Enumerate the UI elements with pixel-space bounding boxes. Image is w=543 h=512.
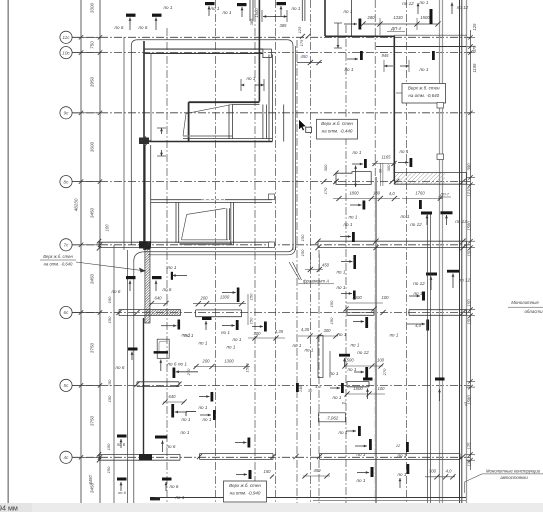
svg-text:по 1: по 1 (330, 371, 339, 376)
4c beam mid (200, 453, 274, 455)
stair2 top double wall y=199.7/202.4 (151, 199, 272, 201)
bottom extra bars (150, 497, 160, 500)
svg-text:390: 390 (467, 163, 472, 171)
svg-text:4,0: 4,0 (315, 384, 321, 389)
svg-text:1210: 1210 (467, 187, 472, 197)
hatched wall strip (145, 245, 150, 323)
svg-text:по 6: по 6 (115, 25, 124, 30)
svg-text:на отм. -0,640: на отм. -0,640 (408, 93, 439, 98)
grid bubble 7c (60, 239, 72, 251)
svg-text:по 1: по 1 (247, 76, 256, 81)
svg-text:по 6: по 6 (116, 365, 125, 370)
svg-text:450: 450 (314, 468, 322, 473)
4c beam left (99, 453, 180, 455)
gray wall x=466.5 (466, 0, 468, 503)
svg-text:Монолитные: Монолитные (511, 300, 539, 305)
grid bubble 5c (60, 379, 72, 391)
narrow column rect x318 y335 (318, 336, 323, 378)
svg-text:270: 270 (186, 368, 191, 376)
upper stair: right wall x=269/272.4 (268, 55, 270, 142)
svg-text:1500: 1500 (353, 386, 363, 391)
svg-text:к1: к1 (342, 401, 346, 405)
7c beam left (99, 241, 148, 243)
-7.062 level box (318, 413, 345, 422)
mid annotations y320-380 (128, 348, 138, 351)
4c junction dark (139, 454, 152, 461)
9c step outline right (336, 113, 372, 121)
svg-text:1800: 1800 (349, 190, 359, 195)
svg-text:150: 150 (329, 300, 334, 307)
svg-text:4,35: 4,35 (275, 329, 284, 334)
svg-text:ДП-7: ДП-7 (439, 192, 450, 196)
left dimension border lines (80, 0, 82, 503)
room inner line x=151 (150, 53, 152, 141)
left pane edge line (7, 0, 9, 503)
svg-text:-7,062: -7,062 (326, 415, 339, 420)
svg-text:по 1: по 1 (221, 330, 230, 335)
white node squares on walls (269, 194, 275, 200)
svg-text:Монолитные конструкции: Монолитные конструкции (486, 469, 541, 474)
svg-text:3750: 3750 (90, 415, 95, 426)
svg-text:по 1: по 1 (353, 150, 362, 155)
svg-text:3450: 3450 (90, 273, 95, 284)
zone lower-left corner arc (134, 252, 145, 261)
svg-text:385: 385 (280, 23, 288, 28)
upper stair: ramp bottom gray line (183, 135, 232, 137)
7c right beam ticks (315, 239, 320, 244)
svg-text:области: области (524, 309, 543, 314)
svg-text:по 12: по 12 (413, 281, 425, 286)
grid bubble 4c (60, 451, 72, 463)
svg-text:по 1: по 1 (357, 478, 366, 483)
upper stair: divider x=229/232.4 (228, 105, 230, 139)
svg-text:по 1: по 1 (390, 333, 399, 338)
svg-text:по 6: по 6 (139, 25, 148, 30)
top wall y=46.5 right section (376, 46, 466, 48)
stair2 ramp bottom gray bar (180, 243, 233, 245)
svg-text:по 12: по 12 (410, 222, 422, 227)
right dimension ticks (467, 36, 476, 38)
svg-text:по 1: по 1 (337, 285, 346, 290)
svg-text:на отм. -0,940: на отм. -0,940 (230, 490, 261, 495)
below 6c annotations (202, 317, 212, 320)
svg-text:по 6: по 6 (170, 484, 179, 489)
svg-text:150: 150 (106, 466, 111, 473)
svg-text:Верх ж.б. стен: Верх ж.б. стен (229, 483, 261, 488)
box verh -0.440 (317, 119, 358, 139)
stair2 left wall x=150.7 (150, 145, 152, 245)
svg-text:по 13: по 13 (455, 219, 467, 224)
svg-text:150: 150 (249, 293, 254, 300)
right side bars y260-290 (426, 273, 437, 276)
wall x=144.8 middle dark (144, 145, 146, 250)
svg-text:450: 450 (301, 54, 309, 59)
grid bubble 11c (60, 31, 72, 43)
grid bubble 6c (60, 306, 72, 318)
svg-text:по 1: по 1 (333, 395, 342, 400)
svg-text:по 1: по 1 (168, 265, 177, 270)
vertical grid axis lines (166, 28, 168, 503)
svg-text:по 1: по 1 (349, 215, 358, 220)
grid bubble 9c (60, 107, 72, 119)
box verh -0.940 bottom (224, 481, 267, 502)
svg-text:по 6: по 6 (163, 287, 172, 292)
svg-text:по 1: по 1 (182, 417, 191, 422)
svg-text:945: 945 (382, 53, 390, 58)
svg-text:по 6: по 6 (117, 442, 126, 447)
svg-text:180: 180 (373, 190, 381, 195)
svg-text:по 1: по 1 (181, 430, 190, 435)
small square detail x158 y339 (157, 339, 169, 358)
svg-text:3450: 3450 (90, 207, 95, 218)
8c double arrow vertical (355, 166, 357, 177)
svg-text:1300: 1300 (220, 295, 230, 300)
svg-text:по 1: по 1 (292, 6, 301, 11)
svg-text:48230: 48230 (74, 198, 79, 211)
upper stair: top wall y=102 (189, 101, 260, 103)
svg-text:150: 150 (467, 299, 472, 307)
svg-text:200: 200 (200, 296, 209, 301)
svg-text:150: 150 (300, 234, 305, 241)
svg-text:8с: 8с (64, 179, 70, 184)
7c beam mid (148, 241, 272, 243)
5c ticks (134, 382, 139, 387)
box verh -0.640 right (402, 84, 446, 104)
upper stair: bottom wall y=138.6/141.5 (183, 138, 272, 140)
svg-text:4,0: 4,0 (389, 191, 395, 196)
svg-text:по 6: по 6 (168, 362, 177, 367)
svg-text:100: 100 (378, 386, 386, 391)
cursor box (306, 127, 312, 132)
svg-text:450: 450 (322, 263, 330, 268)
dark wall pair x=460 (459, 0, 461, 503)
svg-text:по 1: по 1 (182, 333, 191, 338)
svg-text:по 1: по 1 (199, 341, 208, 346)
8c ticks (389, 179, 394, 184)
svg-text:5с: 5с (64, 383, 70, 388)
6c beam left outline (119, 309, 181, 311)
stair2 right divider x=230.8/233.4 (230, 202, 232, 245)
svg-text:по 1: по 1 (293, 343, 302, 348)
thin vertical pair x=428 (427, 214, 429, 503)
stair2 divider x=176/178.7 (175, 202, 177, 243)
svg-text:по 1: по 1 (337, 270, 346, 275)
svg-text:150: 150 (249, 317, 254, 324)
8c beam right box (394, 171, 466, 173)
upper stair dimension arrows (241, 84, 243, 86)
svg-text:на отм. -0,640: на отм. -0,640 (44, 262, 73, 267)
svg-text:Верх ж.б. стен: Верх ж.б. стен (408, 85, 440, 90)
svg-text:по 1: по 1 (420, 67, 429, 72)
svg-text:7с: 7с (64, 243, 70, 248)
top room double wall y=49/53.4 (143, 48, 263, 50)
6c beam mid (196, 309, 242, 311)
svg-text:по 1: по 1 (348, 367, 357, 372)
stair2 divider x=226.8/229.4 (226, 208, 228, 240)
svg-text:по 12: по 12 (357, 350, 369, 355)
svg-text:1300: 1300 (224, 358, 234, 363)
svg-text:300: 300 (429, 469, 437, 474)
grid bubble 8c (60, 176, 72, 188)
4c beam right (320, 453, 461, 455)
svg-text:300: 300 (386, 164, 391, 171)
svg-text:125: 125 (472, 23, 477, 31)
status bar (0, 503, 543, 512)
5c beam mid (347, 381, 369, 383)
svg-text:1195: 1195 (472, 63, 477, 73)
wall x=250 pair top (249, 0, 251, 21)
svg-text:1500: 1500 (420, 15, 430, 20)
5c beam left (137, 381, 179, 383)
svg-text:11с: 11с (62, 35, 70, 40)
zone rounded corner top-left (131, 40, 293, 250)
wall x=143.5 lower dark (143, 318, 145, 457)
upper stair: inner top thin y=104.5 (232, 104, 259, 106)
svg-text:4,0: 4,0 (446, 469, 452, 474)
8c beam left box (336, 172, 371, 185)
svg-text:175: 175 (299, 39, 304, 46)
svg-text:1500: 1500 (352, 295, 362, 300)
svg-text:1500: 1500 (245, 363, 250, 373)
svg-text:1760: 1760 (415, 190, 425, 195)
horizontal grid axis lines (72, 36, 470, 38)
right dimension line (470, 30, 472, 470)
svg-text:по 1: по 1 (223, 10, 232, 15)
svg-text:по 1: по 1 (345, 67, 354, 72)
6c ticks (116, 310, 121, 315)
4c ticks (197, 454, 202, 459)
svg-text:6с: 6с (64, 310, 70, 315)
svg-text:по 6: по 6 (118, 490, 127, 495)
svg-text:по 1: по 1 (351, 343, 360, 348)
svg-text:по 1: по 1 (344, 222, 353, 227)
svg-text:Верх ж.б. стен: Верх ж.б. стен (321, 121, 353, 126)
svg-text:по 12: по 12 (402, 1, 414, 6)
7c junction dark block (139, 241, 151, 248)
svg-text:170: 170 (323, 187, 328, 194)
svg-text:по 1: по 1 (400, 149, 409, 154)
svg-text:3950: 3950 (90, 76, 95, 87)
svg-text:100: 100 (382, 295, 390, 300)
svg-text:ДП-4: ДП-4 (390, 26, 401, 31)
top wall y=36.5 from x325 to x394 (325, 35, 395, 37)
svg-text:по 6: по 6 (167, 444, 176, 449)
svg-text:1165: 1165 (381, 155, 391, 160)
svg-text:640: 640 (169, 394, 177, 399)
upper stair: wall x=259.4 from top (258, 0, 260, 102)
top room wall end tab (263, 49, 272, 58)
dark wall x=144 upper (143, 41, 145, 250)
svg-text:375: 375 (472, 45, 477, 53)
svg-text:3300: 3300 (90, 2, 95, 13)
upper stair: left wall x=188.6 (188, 102, 190, 141)
svg-text:150: 150 (467, 249, 472, 257)
svg-text:по 1: по 1 (344, 9, 353, 14)
svg-text:по 1: по 1 (211, 6, 220, 11)
wall pair x=302-305 top (301, 0, 303, 21)
svg-text:по 1: по 1 (398, 453, 407, 458)
svg-text:100: 100 (105, 224, 110, 232)
svg-text:9с: 9с (64, 111, 70, 116)
svg-text:300: 300 (324, 328, 332, 333)
svg-text:200: 200 (202, 358, 211, 363)
wall x=325 from top (324, 0, 326, 36)
svg-text:по 1: по 1 (233, 337, 242, 342)
svg-text:по 1: по 1 (401, 214, 410, 219)
svg-text:по 1: по 1 (420, 0, 429, 5)
thin line x=351 top (351, 0, 353, 36)
fragment A leader lines (289, 262, 300, 280)
svg-text:150: 150 (106, 443, 111, 450)
upper stair: right inner line x=283.7 (283, 105, 285, 142)
svg-text:Верх ж.б. стен: Верх ж.б. стен (43, 254, 73, 259)
svg-text:10с: 10с (62, 50, 70, 55)
svg-text:3750: 3750 (90, 342, 95, 353)
gray monolithic wall pair x=440 (439, 0, 441, 503)
svg-text:по 1: по 1 (178, 362, 187, 367)
stair2 ramp diagonal (187, 208, 226, 214)
svg-text:по 1: по 1 (305, 348, 314, 353)
svg-text:150: 150 (300, 249, 305, 256)
wall x=394.5 down from top wall (393, 36, 395, 181)
8c dim ext lines 30 (379, 163, 381, 186)
svg-text:на отм. -0,440: на отм. -0,440 (322, 129, 353, 134)
ticks at 11c wall junction (306, 34, 311, 39)
svg-text:94 мм: 94 мм (0, 504, 18, 512)
svg-text:150: 150 (107, 379, 112, 386)
svg-text:150: 150 (467, 317, 472, 325)
svg-text:по 12: по 12 (457, 5, 469, 10)
svg-text:4с: 4с (64, 455, 70, 460)
y410-450 annotations (186, 411, 196, 413)
grid bubble 10c (60, 47, 72, 59)
svg-text:150: 150 (107, 395, 112, 402)
zone inner edge pair (295, 46, 297, 250)
svg-text:по 6: по 6 (112, 289, 121, 294)
svg-text:по 12: по 12 (459, 278, 471, 283)
top annotations (126, 14, 136, 17)
svg-text:150: 150 (329, 317, 334, 324)
upper stair: divider x=262.9/266.4 (262, 105, 264, 139)
gray monolithic wall x=376 (375, 177, 377, 503)
svg-text:125: 125 (467, 459, 472, 467)
zone bottom edge double line (145, 251, 288, 253)
svg-text:150: 150 (264, 469, 272, 474)
svg-text:125: 125 (297, 26, 302, 33)
svg-text:175: 175 (467, 442, 472, 450)
7c beam right long (318, 240, 467, 242)
svg-text:4,35: 4,35 (301, 327, 310, 332)
stair2 door dashed opening (201, 199, 225, 201)
zone/wall vertical thin lines left cluster (113, 245, 115, 503)
svg-text:автостоянки: автостоянки (500, 475, 528, 480)
svg-text:по 1: по 1 (203, 417, 212, 422)
svg-text:1500: 1500 (254, 8, 259, 18)
svg-text:по 1: по 1 (338, 332, 347, 337)
svg-text:1500: 1500 (344, 358, 354, 363)
svg-text:по 1: по 1 (357, 452, 366, 457)
wall junction dark block at (140..150,137..145) (139, 138, 149, 145)
svg-text:по 1: по 1 (227, 345, 236, 350)
7c-6c annotations left (126, 276, 136, 279)
svg-text:300: 300 (323, 164, 328, 171)
upper stair: ramp diagonal (186, 105, 232, 114)
svg-text:фрагмент А: фрагмент А (303, 279, 329, 284)
svg-text:1330: 1330 (393, 15, 403, 20)
6c beam right (409, 309, 467, 311)
svg-text:100: 100 (377, 358, 385, 363)
svg-text:3600: 3600 (90, 141, 95, 152)
stair2 gray tread line (181, 239, 228, 241)
narrow column rect x329.5 (329, 351, 331, 378)
6c beam left hatch (140, 310, 188, 316)
svg-text:150: 150 (107, 296, 112, 303)
svg-text:1580: 1580 (467, 221, 472, 231)
svg-text:по 1: по 1 (199, 405, 208, 410)
svg-text:270: 270 (382, 368, 387, 376)
svg-text:по 1: по 1 (164, 5, 173, 10)
mouse cursor (299, 119, 306, 130)
svg-text:140: 140 (299, 385, 303, 392)
svg-text:280: 280 (367, 15, 376, 20)
svg-text:750: 750 (90, 41, 95, 49)
svg-text:по 1: по 1 (398, 472, 407, 477)
6c beam mid2 (1500) (347, 309, 374, 311)
svg-text:3450: 3450 (88, 475, 93, 485)
leader into wall (396, 92, 402, 94)
svg-text:150: 150 (107, 316, 112, 323)
svg-text:640: 640 (155, 296, 163, 301)
svg-text:385: 385 (249, 18, 254, 25)
